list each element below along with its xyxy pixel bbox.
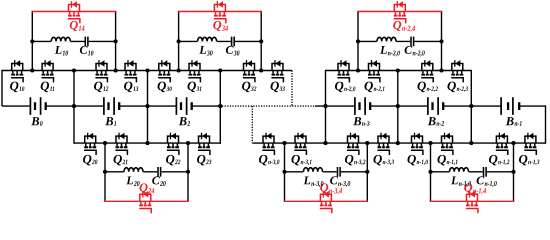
- label Qn-3,3: [373, 155, 393, 166]
- label C10: [80, 46, 94, 56]
- label Cn-2,0: [405, 46, 425, 57]
- label Qn-3,2: [345, 155, 365, 166]
- capacitor Cn-3,0: [338, 167, 341, 177]
- transistor Qn-3,3: [377, 133, 389, 155]
- label Q14: [70, 21, 85, 31]
- transistor Q24: [139, 191, 151, 213]
- label Qn-2,1: [364, 82, 384, 93]
- label Qn-2,2: [417, 82, 437, 93]
- label Q13: [124, 82, 138, 93]
- transistor Qn-2,4: [394, 1, 406, 23]
- transistor Qn-2,2: [421, 60, 433, 82]
- transistor Q34: [214, 1, 226, 23]
- transistor Q32: [243, 60, 255, 82]
- battery B1: [104, 97, 119, 115]
- wire red bypass top module 3: [357, 11, 442, 13]
- wire red bypass bottom module 1: [104, 200, 188, 202]
- label C30: [226, 46, 240, 56]
- junction bus x=471.3: [469, 104, 473, 108]
- label Q11: [41, 82, 55, 93]
- wire vertical node B1-B2: [147, 71, 149, 144]
- transistor Qn-1,3: [524, 133, 536, 155]
- label Ln-1,0: [451, 176, 471, 187]
- junction lower rail x=325.5: [323, 141, 327, 145]
- label Qn-2,3: [447, 82, 467, 93]
- junction upper rail x=147.5: [145, 68, 149, 72]
- label Qn-1,2: [489, 155, 509, 166]
- inductor Ln-3,0: [304, 168, 323, 172]
- wire vertical node Bn-2-Bn-1: [470, 70, 472, 143]
- battery B2: [176, 97, 191, 115]
- label L20: [126, 176, 139, 186]
- wire top module 1 left branch: [31, 11, 33, 71]
- junction top LC left: [30, 39, 34, 43]
- wire dashed vertical upper continuation: [291, 71, 293, 107]
- label Bn-2: [428, 117, 444, 126]
- junction upper rail x=261.2: [259, 68, 263, 72]
- wire battery bus segment 6: [370, 105, 428, 107]
- wire LC branch top module 1: [32, 40, 115, 42]
- label Qn-2,0: [335, 82, 355, 93]
- battery Bn-2: [428, 97, 443, 115]
- transistor Q20: [84, 133, 96, 155]
- label Q32: [242, 82, 256, 93]
- junction lower rail x=471.3: [469, 141, 473, 145]
- transistor Qn-3,0: [262, 133, 274, 155]
- capacitor C20: [158, 167, 161, 177]
- label Qn-1,3: [519, 155, 539, 166]
- wire lower MOSFET rail left section: [74, 142, 220, 144]
- junction lower rail x=284.5: [282, 141, 286, 145]
- junction top LC left: [356, 39, 360, 43]
- junction bus x=397.8: [396, 104, 400, 108]
- transistor Qn-1,0: [411, 133, 423, 155]
- wire top module 2 right branch: [260, 11, 262, 71]
- transistor Q14: [68, 1, 80, 23]
- label Qn-3,0: [259, 155, 279, 166]
- label Q20: [83, 155, 97, 166]
- wire bottom module 1 right branch: [187, 143, 189, 202]
- battery Bn-3: [355, 97, 370, 115]
- wire upper MOSFET rail right section: [326, 70, 472, 72]
- wire battery bus segment 1: [2, 105, 30, 107]
- transistor Qn-3,2: [347, 133, 359, 155]
- wire LC branch bottom module 1: [105, 171, 188, 173]
- junction bus x=74: [72, 104, 76, 108]
- junction bottom LC right: [511, 170, 515, 174]
- junction upper rail x=220.3: [218, 68, 222, 72]
- junction lower rail x=105.0: [103, 141, 107, 145]
- label Cn-3,0: [330, 176, 350, 187]
- junction bus x=220.3: [218, 104, 222, 108]
- label Q31: [188, 82, 202, 93]
- transistor Q12: [95, 60, 107, 82]
- transistor Q21: [115, 133, 127, 155]
- wire bottom module 2 left branch: [284, 143, 286, 202]
- label L10: [55, 46, 68, 56]
- transistor Qn-2,3: [451, 60, 463, 82]
- wire bottom module 2 right branch: [366, 143, 368, 202]
- wire LC branch bottom module 3: [431, 171, 514, 173]
- transistor Q13: [124, 60, 136, 82]
- label Q10: [10, 82, 24, 93]
- wire battery bus segment 7: [443, 105, 501, 107]
- label Qn-1,4: [464, 183, 486, 194]
- transistor Qn-1,1: [441, 133, 453, 155]
- junction bottom LC left: [103, 170, 107, 174]
- junction upper rail x=358.0: [356, 68, 360, 72]
- capacitor Cn-1,0: [484, 167, 487, 177]
- label Q21: [114, 155, 128, 166]
- label Q33: [271, 82, 285, 93]
- wire LC branch top module 2: [179, 40, 262, 42]
- wire dashed vertical lower continuation: [251, 106, 253, 143]
- transistor Q10: [11, 60, 23, 82]
- inductor L10: [51, 37, 70, 41]
- wire battery bus segment 2: [46, 105, 104, 107]
- wire lower MOSFET rail right section: [252, 142, 545, 144]
- wire top module 1 right branch: [115, 11, 117, 71]
- junction bottom LC right: [365, 170, 369, 174]
- label Q22: [166, 155, 180, 166]
- transistor Q23: [198, 133, 210, 155]
- inductor Ln-1,0: [450, 168, 469, 172]
- wire right rail: [545, 105, 547, 143]
- capacitor Cn-2,0: [411, 37, 414, 47]
- label B1: [105, 117, 116, 126]
- label Ln-3,0: [303, 176, 323, 187]
- wire LC branch bottom module 2: [285, 171, 368, 173]
- transistor Qn-1,2: [496, 133, 508, 155]
- label Q30: [158, 82, 172, 93]
- junction upper rail x=115.6: [114, 68, 118, 72]
- wire bottom module 1 left branch: [104, 143, 106, 202]
- junction bottom LC right: [186, 170, 190, 174]
- junction lower rail x=147.5: [145, 141, 149, 145]
- wire top module 3 right branch: [441, 11, 443, 71]
- label Qn-3,4: [320, 183, 342, 194]
- transistor Qn-2,0: [337, 60, 349, 82]
- wire vertical node B2-B3: [219, 71, 221, 144]
- inductor L20: [124, 168, 143, 172]
- wire bottom module 3 left branch: [430, 143, 432, 202]
- label Qn-3,1: [291, 155, 311, 166]
- transistor Q33: [271, 60, 283, 82]
- label Bn-3: [353, 117, 369, 126]
- wire battery bus segment 3: [119, 105, 176, 107]
- junction lower rail x=513.5: [511, 141, 515, 145]
- junction lower rail x=430.5: [428, 141, 432, 145]
- label C20: [152, 176, 166, 186]
- junction top LC right: [439, 39, 443, 43]
- inductor Ln-2,0: [377, 37, 396, 41]
- wire battery bus segment 5: [315, 105, 355, 107]
- junction top LC left: [177, 39, 181, 43]
- junction bus x=325.5: [323, 104, 327, 108]
- wire battery bus segment 4: [192, 105, 222, 107]
- wire top module 2 left branch: [178, 11, 180, 71]
- label L30: [199, 46, 212, 56]
- label B0: [31, 117, 42, 126]
- label Q23: [197, 155, 211, 166]
- junction bottom LC left: [282, 170, 286, 174]
- battery Bn-1: [501, 97, 519, 115]
- junction upper rail x=74: [72, 68, 76, 72]
- label Ln-2,0: [380, 46, 400, 57]
- junction lower rail x=367.3: [365, 141, 369, 145]
- junction top LC right: [114, 39, 118, 43]
- label Q34: [213, 21, 228, 31]
- inductor L30: [198, 37, 217, 41]
- wire upper MOSFET rail left section: [2, 70, 292, 72]
- wire red bypass bottom module 2: [284, 200, 368, 202]
- junction bus x=147.5: [145, 104, 149, 108]
- label B2: [179, 117, 190, 126]
- label Qn-2,4: [393, 21, 415, 32]
- transistor Qn-3,1: [294, 133, 306, 155]
- junction upper rail x=441.5: [439, 68, 443, 72]
- label Qn-1,1: [437, 155, 457, 166]
- label Q12: [94, 82, 108, 93]
- junction top LC right: [259, 39, 263, 43]
- transistor Q31: [188, 60, 200, 82]
- wire red bypass top module 1: [32, 11, 117, 13]
- wire battery bus dotted continuation: [222, 105, 315, 107]
- capacitor C10: [85, 37, 88, 47]
- transistor Q22: [167, 133, 179, 155]
- capacitor C30: [232, 37, 235, 47]
- label Bn-1: [506, 117, 522, 126]
- label Qn-1,0: [407, 155, 427, 166]
- wire top module 3 left branch: [357, 11, 359, 71]
- junction upper rail x=32.3: [30, 68, 34, 72]
- label Q24: [140, 183, 155, 193]
- transistor Qn-2,1: [368, 60, 380, 82]
- wire red bypass bottom module 3: [430, 200, 514, 202]
- wire vertical node B0-B1: [73, 71, 75, 144]
- wire battery bus segment 8: [519, 105, 545, 107]
- junction upper rail x=397.8: [396, 68, 400, 72]
- junction upper rail x=178.6: [177, 68, 181, 72]
- junction lower rail x=397.8: [396, 141, 400, 145]
- wire bottom module 3 right branch: [513, 143, 515, 202]
- wire vertical node Bn-4-Bn-3: [325, 70, 327, 143]
- wire vertical node Bn-3-Bn-2: [397, 71, 399, 144]
- transistor Qn-3,4: [320, 191, 332, 213]
- battery B0: [30, 97, 45, 115]
- wire LC branch top module 3: [358, 40, 442, 42]
- wire left rail: [1, 70, 3, 106]
- transistor Q11: [42, 60, 54, 82]
- transistor Q30: [158, 60, 170, 82]
- transistor Qn-1,4: [466, 191, 478, 213]
- wire red bypass top module 2: [178, 11, 262, 13]
- junction bottom LC left: [428, 170, 432, 174]
- label Cn-1,0: [477, 176, 497, 187]
- junction lower rail x=188.0: [186, 141, 190, 145]
